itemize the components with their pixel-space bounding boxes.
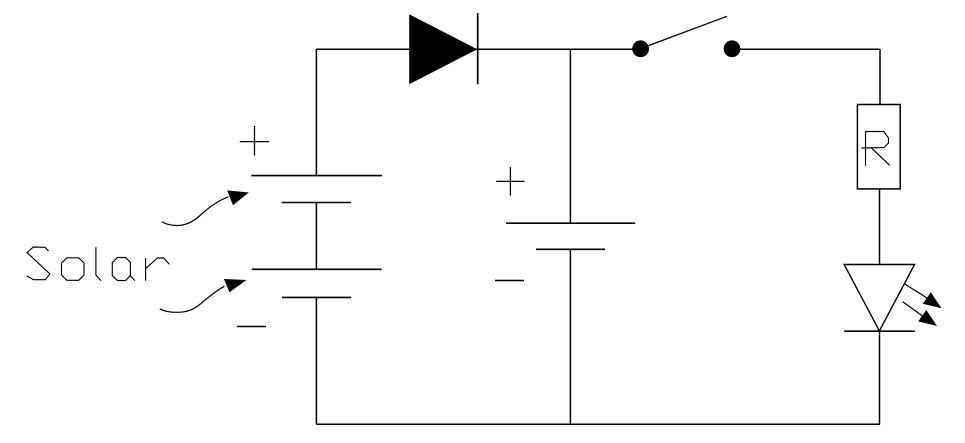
solar cell 1 plates [251,176,382,203]
diode D1 [409,13,478,84]
annotation arrow to solar cell 2 [160,279,247,312]
wire capacitor branch upper [569,49,571,223]
wire top horizontal right segment (switch right pole to right corner) [732,48,880,50]
capacitor C1 plates [506,223,635,249]
plus label (solar) [240,126,269,156]
wire bottom horizontal [316,423,880,425]
annotation arrow to solar cell 1 [162,190,249,225]
wire left vertical segment: top to solar cell 1 [315,49,317,175]
wire left vertical segment: solar cell 2 to bottom [315,297,317,424]
minus label (solar) [237,326,266,328]
wire capacitor branch lower [569,249,571,424]
minus label (capacitor) [495,280,524,282]
switch S1 [632,16,740,57]
solar cell 2 plates [252,269,382,297]
LED D2 [844,265,941,332]
plus label (capacitor) [496,167,524,195]
text Solar [27,247,170,281]
wire right vertical: top corner down to resistor [879,49,881,104]
resistor R [857,105,900,189]
wire below LED to bottom corner [879,331,881,424]
wire top horizontal left segment (solar top to switch left pole) [316,48,640,50]
wire left vertical segment: between solar cells [315,203,317,270]
wire between resistor and LED [879,189,881,265]
